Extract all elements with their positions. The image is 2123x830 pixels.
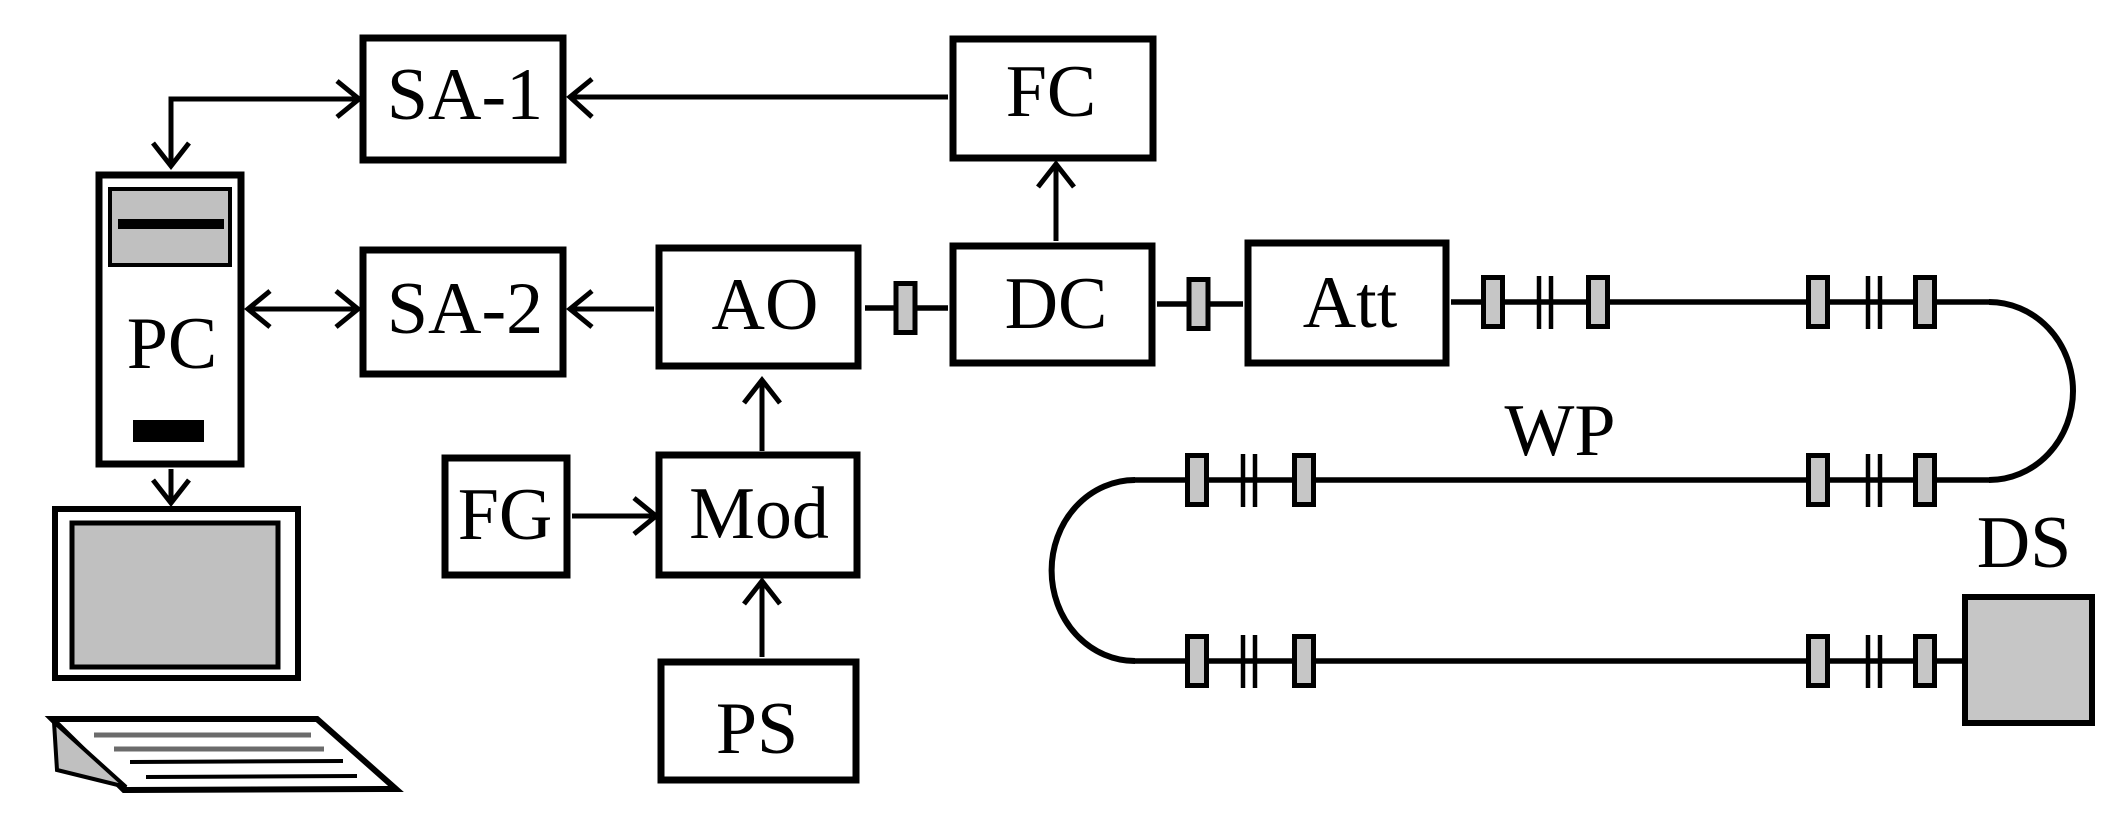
box DS <box>1965 502 2092 723</box>
wire PS to Mod (arrow up) <box>744 581 780 657</box>
left U-turn of fiber <box>1052 480 1135 661</box>
connector group line2 left <box>1188 454 1314 507</box>
svg-text:SA-2: SA-2 <box>387 268 543 350</box>
svg-text:PS: PS <box>716 688 798 770</box>
PC drive slot line <box>118 219 224 229</box>
box Att <box>1248 243 1446 363</box>
box SA-2 <box>363 250 563 374</box>
box FG <box>445 458 567 575</box>
wire PC to SA-1 (elbow, arrows both ends) <box>153 81 359 166</box>
PC tower case <box>99 175 241 464</box>
wire DC to FC (arrow up) <box>1038 164 1074 241</box>
wire FG to Mod (arrow right) <box>572 498 656 534</box>
box SA-1 <box>363 38 563 160</box>
PC drive bay panel <box>110 189 230 265</box>
monitor screen <box>72 523 278 667</box>
wire AO to SA-2 (arrow left) <box>570 291 654 327</box>
fiber line 2 (middle, right to left) <box>1135 477 1989 483</box>
svg-text:FG: FG <box>458 474 553 556</box>
box Mod <box>659 455 857 575</box>
svg-text:DS: DS <box>1977 502 2072 584</box>
keyboard key row lines <box>94 733 311 738</box>
connector DC-Att <box>1189 280 1208 329</box>
svg-text:FC: FC <box>1006 51 1097 133</box>
connector group line3 left <box>1188 635 1314 688</box>
svg-text:SA-1: SA-1 <box>387 54 543 136</box>
box AO <box>659 248 858 366</box>
svg-text:Att: Att <box>1303 262 1398 344</box>
connector group line3 right <box>1809 635 1935 688</box>
connector group line1 right <box>1809 276 1935 329</box>
connector group line2 right <box>1809 454 1935 507</box>
svg-text:WP: WP <box>1505 390 1616 472</box>
wire PC to monitor (arrow down) <box>153 469 189 503</box>
wire DC to Att <box>1157 301 1243 307</box>
monitor <box>55 509 298 678</box>
PC bottom button <box>133 420 204 442</box>
svg-text:Mod: Mod <box>689 473 829 555</box>
box FC <box>953 39 1153 158</box>
fiber line 3 (left to DS) <box>1135 658 1963 664</box>
right U-turn of fiber <box>1989 302 2073 480</box>
svg-text:AO: AO <box>712 264 819 346</box>
svg-text:PC: PC <box>127 303 218 385</box>
keyboard <box>52 719 396 790</box>
box PS <box>661 662 856 780</box>
wire PC to SA-2 (double arrow) <box>248 291 358 327</box>
connector AO-DC <box>896 284 915 333</box>
connector group line1 after Att <box>1484 276 1608 329</box>
keyboard left wedge <box>54 722 126 787</box>
box DC <box>953 246 1152 363</box>
fiber line 1 (Att to right U-turn) <box>1451 299 1989 305</box>
wire AO to DC <box>865 305 948 311</box>
svg-text:DC: DC <box>1005 263 1108 345</box>
wire Mod to AO (arrow up) <box>744 380 780 451</box>
wire FC to SA-1 (arrow left) <box>570 79 948 117</box>
